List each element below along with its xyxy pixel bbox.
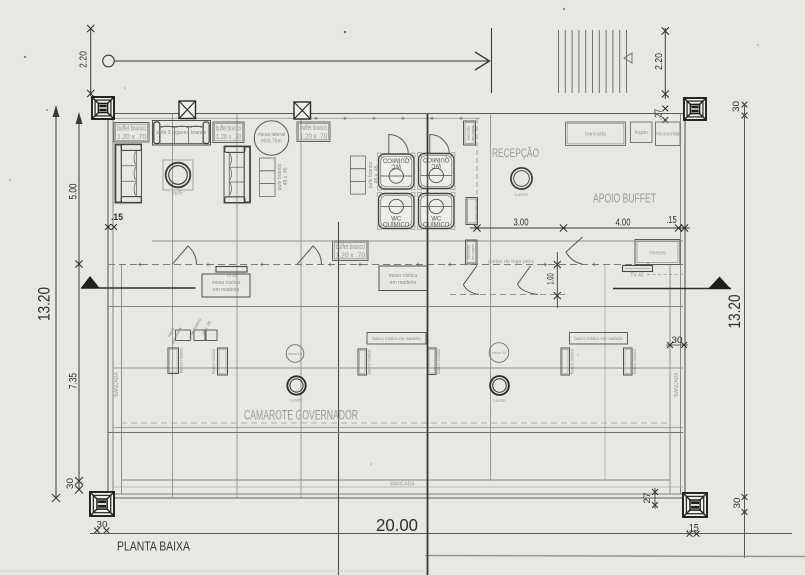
mesa rustica right [379,266,428,291]
WC quimico unit 3 (bottom-left) [378,193,416,230]
svg-text:banco rústico em madeira: banco rústico em madeira [372,336,421,341]
grid line A [172,114,174,497]
svg-text:freezer: freezer [649,251,666,257]
svg-text:1.20 x .70: 1.20 x .70 [117,134,146,141]
dashed line y423 [121,422,670,424]
dashed vertical at reception edge [476,118,478,228]
section line D long [338,222,340,575]
divider dashed line [108,264,683,266]
svg-text:RECEPÇÃO: RECEPÇÃO [492,146,539,160]
mesa rustica left [202,274,250,297]
13.20 right dimension line [744,105,746,559]
svg-text:mesa rústica: mesa rústica [212,280,241,286]
13.20 left dimension line with arrow [55,107,57,499]
svg-text:QUÍMICO: QUÍMICO [423,156,450,163]
WC quimico unit 2 (top-right, flipped) [418,153,456,190]
bottom dimension line 20.00 [90,533,792,535]
fogao box [631,122,653,143]
buffet branco B1 [114,123,149,143]
column P6 top wall [294,102,311,119]
bench M1 [358,349,372,375]
bench R1 [561,348,575,375]
svg-text:QUÍMICO: QUÍMICO [383,157,410,164]
svg-text:mesa 90: mesa 90 [492,351,506,355]
svg-text:7.35: 7.35 [68,373,80,389]
inner floor left line [121,265,123,494]
pufe table with rings [163,160,193,197]
svg-text:QUÍMICO: QUÍMICO [383,222,410,229]
grid line B [236,114,238,497]
lustre right [490,376,509,403]
svg-text:banco rústico: banco rústico [632,348,637,374]
TV rack bar [623,266,684,279]
inner floor line bottom [122,479,671,481]
grid line F [490,114,492,481]
double door reception left leaf [464,266,480,295]
door swing left 2 [297,246,322,265]
dimension .30 right wall [666,335,688,348]
arrowhead [475,52,490,70]
svg-text:5.00: 5.00 [68,184,80,200]
svg-text:buffet branco: buffet branco [216,125,241,132]
svg-text:PLANTA BAIXA: PLANTA BAIXA [117,539,190,554]
top wall [107,113,686,115]
dimension .27 right top [662,106,668,112]
left wall [107,113,109,497]
section marker left triangle [81,276,196,289]
svg-text:sofá 3 lugares branco: sofá 3 lugares branco [157,130,207,136]
bench L2 [211,348,228,375]
door swing right of freezer [566,237,583,264]
WC door arc 2 [430,135,450,155]
svg-text:bancada: bancada [467,125,471,140]
banco rustico box right [570,333,628,345]
column P1 top-left corner [92,97,114,119]
section line E dark long [427,114,429,575]
datum circle [103,55,115,67]
dashed sill under double door [450,294,565,296]
section marker right triangle [613,277,731,290]
dimension 27 bottom-right [642,488,658,509]
svg-text:em madeira: em madeira [390,280,417,286]
svg-text:TV 42: TV 42 [630,273,644,279]
svg-text:WC: WC [431,162,442,168]
svg-text:bancada: bancada [467,244,471,259]
dimension 2.20 left vertical line [90,28,92,96]
svg-text:em aspie: em aspie [471,125,475,140]
mesa circle left [286,345,304,363]
microonda box [656,122,681,146]
aparador vertical rect 1 [464,121,476,145]
line y433 [108,432,683,434]
svg-text:bancada: bancada [585,132,606,138]
svg-text:buffet branco: buffet branco [300,125,327,132]
svg-text:em madeira: em madeira [213,287,240,293]
pufe stack 2 [351,156,381,194]
banco rustico box mid [367,333,426,345]
mesa circle right [489,343,509,363]
bench M2 [428,348,442,375]
divider lower solid line [108,306,683,308]
svg-text:BANCADA: BANCADA [114,372,120,397]
bancada box [566,122,626,146]
aparador vertical rect 3 [466,240,478,264]
svg-text:portas de fuga pel s: portas de fuga pel s [488,259,534,265]
svg-text:.15: .15 [111,212,123,222]
WC quimico unit 4 (bottom-right) [418,193,456,230]
svg-text:Lustre: Lustre [290,398,303,403]
svg-text:13.20: 13.20 [726,295,744,329]
svg-text:banco rústico: banco rústico [211,348,216,374]
svg-text:4.00: 4.00 [616,217,631,228]
dimension .15 bottom-right [686,523,699,537]
svg-text:pufe: pufe [173,191,183,197]
dimension 30 bottom-left column [94,520,109,534]
svg-text:H=0.75m: H=0.75m [261,139,281,145]
dimension 2.20 right [664,28,666,99]
svg-text:.45 x .45: .45 x .45 [283,167,289,186]
svg-text:3.00: 3.00 [514,217,529,228]
scan shadow line bottom [425,556,805,557]
column P2 top-right corner [684,98,706,120]
svg-text:2.20: 2.20 [653,53,665,70]
svg-text:30: 30 [65,478,76,489]
grid line C [300,114,302,497]
small pufe boxes [166,317,217,345]
TV bar above mesa rustica left [216,267,247,279]
speckle noise [24,56,26,58]
svg-text:Lustre: Lustre [493,398,506,403]
hatch lines [558,30,560,93]
svg-text:1.20 x .70: 1.20 x .70 [336,252,366,259]
svg-text:banco rústico: banco rústico [436,348,441,374]
dimension line 3.00 4.00 .15 [470,227,690,229]
wall metre ticks [314,117,317,120]
svg-text:30: 30 [731,101,742,112]
right wall [680,113,682,494]
sofa 3 lugares top [153,121,211,146]
buffet branco B4 mid [333,241,369,261]
divider upper line [152,240,683,242]
svg-text:APOIO BUFFET: APOIO BUFFET [593,192,656,206]
bottom wall [108,493,685,495]
inner floor right line [669,265,671,494]
svg-text:BANCADA: BANCADA [674,372,680,397]
svg-text:13.20: 13.20 [36,287,54,321]
reception lustre [511,168,532,198]
svg-text:banco rústico em madeira: banco rústico em madeira [574,336,623,341]
svg-text:1.00: 1.00 [546,273,557,285]
svg-text:fogão: fogão [635,130,649,136]
svg-text:banco rústico: banco rústico [179,348,184,374]
dimension 1.00 [556,252,558,308]
svg-text:1.20 x .70: 1.20 x .70 [300,133,327,140]
line y427 [113,427,683,429]
svg-text:em aspie: em aspie [471,244,475,259]
hatch arrow triangle [624,53,632,63]
column P3 bottom-left corner [90,492,114,516]
svg-text:2.20: 2.20 [78,51,90,68]
pufe stack 1 [260,158,290,196]
svg-text:mesa rústica: mesa rústica [389,273,418,279]
lustre left [287,376,305,402]
svg-text:buffet branco: buffet branco [336,244,366,251]
svg-text:30: 30 [672,335,683,346]
svg-text:mesa lateral: mesa lateral [258,132,285,138]
svg-text:CAMAROTE GOVERNADOR: CAMAROTE GOVERNADOR [244,408,358,423]
sofa left [115,144,142,203]
bench L1 [168,348,184,374]
section line E overlay [427,114,429,575]
door swing left 1 [172,246,197,265]
buffet branco B3 [297,122,330,142]
svg-text:Lustre: Lustre [515,192,529,198]
buffet branco B2 [213,122,244,143]
grid line G light [604,265,606,480]
WC door arc 1 [389,135,409,155]
svg-text:.27: .27 [654,109,665,120]
svg-text:27: 27 [642,493,653,504]
svg-text:20.00: 20.00 [376,515,418,535]
svg-text:banco rústico: banco rústico [570,348,575,374]
aparador vertical rect 2 [466,198,478,225]
arrow line to right [114,60,489,62]
freezer box [635,240,680,265]
svg-text:30: 30 [732,498,743,509]
svg-text:WC: WC [391,163,402,169]
column P5 top wall [179,101,196,119]
bench R2 [624,348,638,375]
svg-text:buffet branco: buffet branco [117,125,146,132]
WC quimico unit 1 (top-left, flipped) [378,153,416,190]
column P4 bottom-right corner [683,493,707,517]
svg-text:mesa 90: mesa 90 [288,352,302,356]
double door reception right leaf [518,266,539,295]
sofa right [224,146,251,203]
svg-text:.15: .15 [666,215,677,226]
svg-text:banco rústico: banco rústico [367,349,372,375]
vertical line at arrow end [491,28,493,93]
horizontal interior line y368 [113,367,683,369]
5.00 / 7.35 dimension line with arrow [78,114,80,490]
mesa lateral circle [254,121,288,155]
svg-text:microonda: microonda [656,132,680,138]
svg-text:1.20 x .70: 1.20 x .70 [216,134,241,141]
svg-text:BANCADA: BANCADA [390,482,415,488]
